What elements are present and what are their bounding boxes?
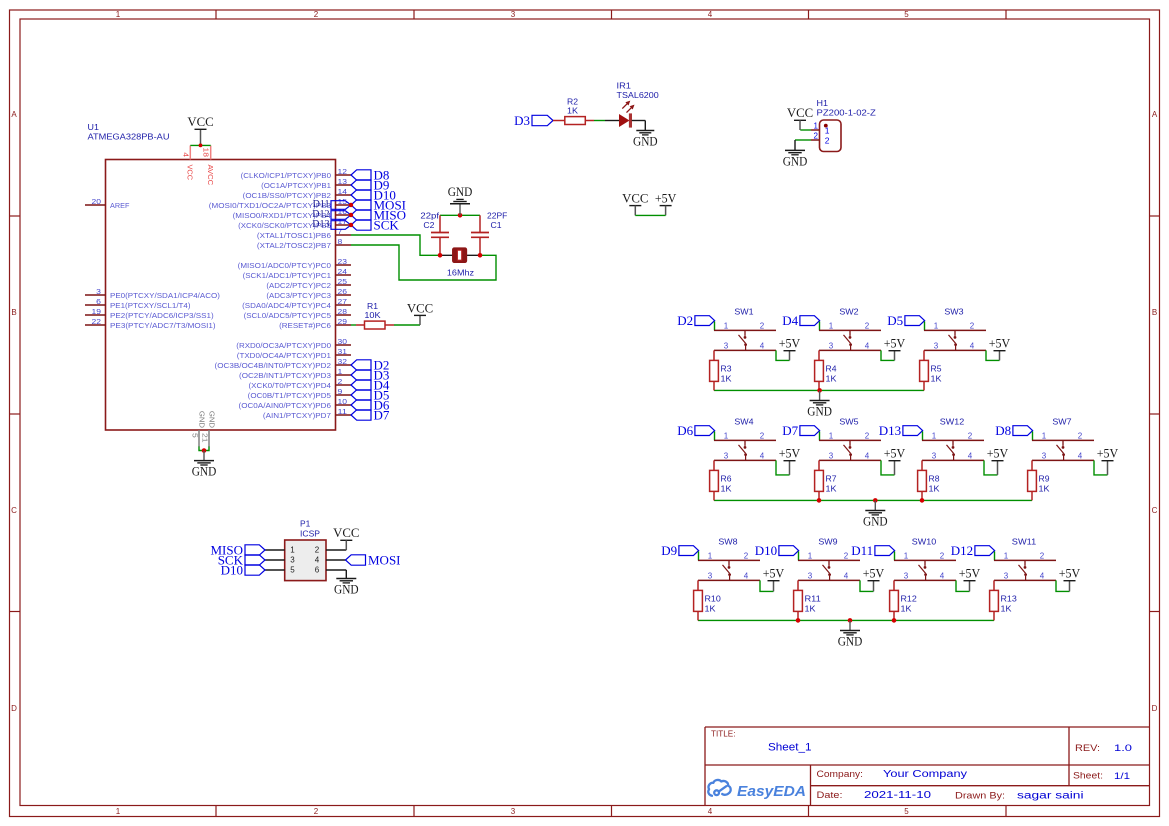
svg-text:R7: R7 [826,473,837,483]
svg-text:1: 1 [290,546,295,555]
svg-text:2: 2 [940,551,945,560]
svg-text:GND: GND [633,134,658,149]
svg-text:GND: GND [807,404,832,419]
svg-text:U1: U1 [88,122,100,132]
svg-text:4: 4 [844,571,849,580]
svg-text:28: 28 [338,307,348,316]
svg-text:4: 4 [940,571,945,580]
svg-text:26: 26 [338,287,348,296]
svg-text:C1: C1 [491,220,503,230]
svg-text:SW3: SW3 [944,306,964,316]
svg-text:D4: D4 [782,313,798,328]
svg-text:ICSP: ICSP [300,529,320,539]
svg-text:3: 3 [932,451,937,460]
svg-text:D8: D8 [995,423,1011,438]
svg-text:10: 10 [338,397,348,406]
svg-text:25: 25 [338,277,348,286]
svg-text:2: 2 [968,431,973,440]
svg-text:(OC1A/PTCXY)PB1: (OC1A/PTCXY)PB1 [261,181,331,190]
svg-text:SW10: SW10 [912,536,937,546]
svg-text:EasyEDA: EasyEDA [737,784,806,800]
svg-text:+5V: +5V [655,191,677,206]
svg-text:SW1: SW1 [734,306,754,316]
svg-text:2: 2 [865,431,870,440]
svg-text:1/1: 1/1 [1114,771,1130,782]
svg-text:1K: 1K [567,106,578,116]
svg-text:(TXD0/OC4A/PTCXY)PD1: (TXD0/OC4A/PTCXY)PD1 [237,351,331,360]
svg-text:GND: GND [208,411,217,429]
svg-text:2: 2 [970,321,975,330]
svg-text:(OC0A/AIN0/PTCXY)PD6: (OC0A/AIN0/PTCXY)PD6 [239,401,332,410]
svg-text:2: 2 [1040,551,1045,560]
svg-text:D3: D3 [514,113,530,128]
svg-text:1K: 1K [931,373,942,383]
svg-text:6: 6 [96,297,101,306]
svg-text:29: 29 [338,317,348,326]
svg-text:2: 2 [825,135,830,145]
svg-text:2: 2 [760,321,765,330]
svg-text:C: C [1152,506,1158,515]
svg-text:GND: GND [192,464,217,479]
svg-text:B: B [11,308,16,317]
svg-text:16Mhz: 16Mhz [447,268,474,278]
svg-text:VCC: VCC [622,191,648,206]
svg-text:C2: C2 [423,220,435,230]
svg-text:PE3(PTCY/ADC7/T3/MOSI1): PE3(PTCY/ADC7/T3/MOSI1) [110,321,216,330]
svg-text:20: 20 [92,197,102,206]
svg-text:4: 4 [968,451,973,460]
svg-text:VCC: VCC [333,525,359,540]
svg-text:D5: D5 [887,313,903,328]
svg-text:1: 1 [1042,431,1047,440]
svg-text:1: 1 [829,321,834,330]
svg-text:4: 4 [1078,451,1083,460]
svg-text:ATMEGA328PB-AU: ATMEGA328PB-AU [88,132,170,142]
svg-text:3: 3 [829,341,834,350]
svg-text:D13: D13 [312,219,329,230]
svg-text:3: 3 [808,571,813,580]
svg-text:2: 2 [314,10,319,19]
svg-text:D9: D9 [661,543,677,558]
svg-text:1K: 1K [826,373,837,383]
svg-text:C: C [11,506,17,515]
svg-text:+5V: +5V [779,446,801,461]
svg-text:4: 4 [760,341,765,350]
svg-text:3: 3 [96,287,101,296]
svg-text:SW12: SW12 [940,416,965,426]
svg-text:3: 3 [934,341,939,350]
svg-text:5: 5 [904,807,909,816]
svg-text:(RXD0/OC3A/PTCXY)PD0: (RXD0/OC3A/PTCXY)PD0 [236,341,331,350]
svg-text:2: 2 [865,321,870,330]
svg-text:GND: GND [783,153,808,168]
svg-text:(OC2B/INT1/PTCXY)PD3: (OC2B/INT1/PTCXY)PD3 [239,371,331,380]
svg-text:SW5: SW5 [839,416,859,426]
svg-text:R3: R3 [721,363,732,373]
svg-text:30: 30 [338,337,348,346]
svg-text:AVCC: AVCC [206,165,215,186]
svg-text:5: 5 [904,10,909,19]
svg-text:4: 4 [865,451,870,460]
svg-text:2: 2 [760,431,765,440]
svg-text:+5V: +5V [884,446,906,461]
svg-text:3: 3 [708,571,713,580]
svg-text:IR1: IR1 [617,81,632,91]
svg-text:22pf: 22pf [420,210,439,220]
svg-text:19: 19 [92,307,102,316]
svg-text:1.0: 1.0 [1114,743,1132,754]
svg-text:11: 11 [338,407,348,416]
svg-text:4: 4 [865,341,870,350]
svg-text:4: 4 [970,341,975,350]
svg-text:1: 1 [116,807,121,816]
svg-text:Sheet:: Sheet: [1073,770,1103,780]
svg-text:1: 1 [814,121,819,130]
svg-text:1: 1 [829,431,834,440]
svg-text:(MISO1/ADC0/PTCY)PC0: (MISO1/ADC0/PTCY)PC0 [238,261,331,270]
svg-text:R4: R4 [826,363,837,373]
svg-text:4: 4 [315,556,320,565]
svg-text:14: 14 [338,187,348,196]
svg-text:SW8: SW8 [718,536,738,546]
svg-text:(SDA0/ADC4/PTCY)PC4: (SDA0/ADC4/PTCY)PC4 [242,301,331,310]
svg-text:D: D [1152,704,1158,713]
svg-text:1K: 1K [826,483,837,493]
svg-text:D7: D7 [782,423,798,438]
svg-text:(XTAL2/TOSC2)PB7: (XTAL2/TOSC2)PB7 [257,241,331,250]
svg-text:SCK: SCK [374,217,400,232]
svg-text:1K: 1K [929,483,940,493]
svg-text:Date:: Date: [817,790,843,800]
svg-text:1K: 1K [721,483,732,493]
svg-text:D10: D10 [221,562,243,577]
svg-text:24: 24 [338,267,348,276]
svg-text:P1: P1 [300,519,311,529]
svg-text:R12: R12 [901,593,918,603]
svg-text:4: 4 [744,571,749,580]
svg-text:18: 18 [202,148,211,158]
svg-text:D11: D11 [851,543,873,558]
svg-text:1K: 1K [705,603,716,613]
svg-text:21: 21 [201,433,210,443]
svg-text:2: 2 [338,377,343,386]
svg-text:D6: D6 [677,423,693,438]
svg-text:1: 1 [724,431,729,440]
svg-text:2: 2 [744,551,749,560]
svg-text:R11: R11 [805,593,822,603]
svg-text:A: A [1152,110,1158,119]
svg-text:D2: D2 [677,313,693,328]
svg-text:6: 6 [315,566,320,575]
svg-text:1: 1 [724,321,729,330]
svg-text:4: 4 [181,152,190,157]
svg-text:3: 3 [1042,451,1047,460]
svg-text:Drawn By:: Drawn By: [955,791,1005,801]
svg-text:3: 3 [829,451,834,460]
svg-text:D12: D12 [951,543,973,558]
svg-text:GND: GND [448,184,473,199]
svg-text:VCC: VCC [787,105,813,120]
svg-text:+5V: +5V [1059,566,1081,581]
svg-text:31: 31 [338,347,348,356]
svg-text:SW9: SW9 [818,536,838,546]
svg-text:GND: GND [334,582,359,597]
svg-text:1K: 1K [1039,483,1050,493]
svg-text:H1: H1 [817,98,829,108]
svg-text:D10: D10 [755,543,777,558]
svg-text:Your Company: Your Company [883,769,967,780]
svg-text:B: B [1152,308,1157,317]
svg-text:3: 3 [724,341,729,350]
svg-text:TSAL6200: TSAL6200 [617,90,660,100]
svg-text:R13: R13 [1001,593,1018,603]
svg-text:8: 8 [338,237,343,246]
svg-text:(SCK1/ADC1/PTCY)PC1: (SCK1/ADC1/PTCY)PC1 [243,271,331,280]
svg-text:23: 23 [338,257,348,266]
svg-text:PE0(PTCXY/SDA1/ICP4/ACO): PE0(PTCXY/SDA1/ICP4/ACO) [110,291,220,300]
svg-text:D13: D13 [879,423,901,438]
svg-text:D: D [11,704,17,713]
svg-text:1: 1 [338,367,343,376]
svg-text:(SCL0/ADC5/PTCY)PC5: (SCL0/ADC5/PTCY)PC5 [244,311,331,320]
svg-text:+5V: +5V [1097,446,1119,461]
svg-text:1K: 1K [805,603,816,613]
svg-text:5: 5 [191,433,200,438]
svg-text:4: 4 [1040,571,1045,580]
svg-text:R8: R8 [929,473,940,483]
svg-text:+5V: +5V [884,336,906,351]
svg-text:+5V: +5V [987,446,1009,461]
svg-text:(XCK0/T0/PTCXY)PD4: (XCK0/T0/PTCXY)PD4 [249,381,332,390]
svg-text:GND: GND [838,634,863,649]
svg-text:(OC3B/OC4B/INT0/PTCXY)PD2: (OC3B/OC4B/INT0/PTCXY)PD2 [215,361,332,370]
svg-text:R6: R6 [721,473,732,483]
svg-text:2: 2 [1078,431,1083,440]
svg-text:(RESET#)PC6: (RESET#)PC6 [279,321,331,330]
svg-text:GND: GND [198,411,207,429]
svg-text:5: 5 [290,566,295,575]
svg-text:PZ200-1-02-Z: PZ200-1-02-Z [817,108,876,118]
svg-text:(ADC3/PTCY)PC3: (ADC3/PTCY)PC3 [266,291,331,300]
svg-text:2: 2 [314,807,319,816]
svg-text:AREF: AREF [110,201,130,210]
svg-text:(CLKO/ICP1/PTCXY)PB0: (CLKO/ICP1/PTCXY)PB0 [241,171,331,180]
svg-text:3: 3 [904,571,909,580]
svg-text:(OC0B/T1/PTCXY)PD5: (OC0B/T1/PTCXY)PD5 [248,391,331,400]
svg-text:1: 1 [825,125,830,135]
svg-text:REV:: REV: [1075,743,1100,753]
svg-text:12: 12 [338,167,348,176]
svg-text:+5V: +5V [959,566,981,581]
svg-text:3: 3 [1004,571,1009,580]
svg-text:A: A [11,110,17,119]
svg-text:R10: R10 [705,593,722,603]
svg-text:1: 1 [808,551,813,560]
svg-text:VCC: VCC [407,300,433,315]
svg-text:4: 4 [708,10,713,19]
svg-text:1K: 1K [1001,603,1012,613]
svg-text:R5: R5 [931,363,942,373]
svg-text:PE2(PTCY/ADC6/ICP3/SS1): PE2(PTCY/ADC6/ICP3/SS1) [110,311,214,320]
svg-text:+5V: +5V [863,566,885,581]
svg-text:32: 32 [338,357,348,366]
svg-text:GND: GND [863,514,888,529]
svg-text:3: 3 [511,807,516,816]
svg-text:SW4: SW4 [734,416,754,426]
svg-text:1: 1 [116,10,121,19]
svg-text:3: 3 [511,10,516,19]
svg-text:1: 1 [932,431,937,440]
svg-text:R9: R9 [1039,473,1050,483]
svg-text:MOSI: MOSI [368,552,401,567]
svg-text:+5V: +5V [989,336,1011,351]
svg-text:VCC: VCC [186,165,195,181]
svg-text:3: 3 [724,451,729,460]
svg-text:Sheet_1: Sheet_1 [768,742,812,754]
svg-text:2: 2 [844,551,849,560]
svg-text:(AIN1/PTCXY)PD7: (AIN1/PTCXY)PD7 [263,411,331,420]
svg-text:SW7: SW7 [1052,416,1072,426]
svg-text:1: 1 [1004,551,1009,560]
svg-text:D7: D7 [374,407,390,422]
svg-text:+5V: +5V [779,336,801,351]
svg-text:3: 3 [290,556,295,565]
svg-text:Company:: Company: [817,769,864,779]
svg-text:2021-11-10: 2021-11-10 [864,790,932,801]
svg-text:(ADC2/PTCY)PC2: (ADC2/PTCY)PC2 [266,281,331,290]
svg-text:SW11: SW11 [1012,536,1037,546]
svg-text:22: 22 [92,317,102,326]
svg-text:SW2: SW2 [839,306,859,316]
svg-text:4: 4 [708,807,713,816]
svg-text:1: 1 [904,551,909,560]
svg-text:22PF: 22PF [487,210,507,220]
svg-text:TITLE:: TITLE: [711,729,736,739]
svg-text:1K: 1K [901,603,912,613]
svg-text:PE1(PTCXY/SCL1/T4): PE1(PTCXY/SCL1/T4) [110,301,191,310]
svg-text:9: 9 [338,387,343,396]
svg-text:7: 7 [338,227,343,236]
svg-text:1: 1 [934,321,939,330]
svg-text:13: 13 [338,177,348,186]
svg-text:1: 1 [708,551,713,560]
svg-text:VCC: VCC [187,114,213,129]
svg-text:4: 4 [760,451,765,460]
svg-text:2: 2 [814,132,819,141]
svg-text:2: 2 [315,546,320,555]
svg-text:sagar saini: sagar saini [1017,791,1084,802]
svg-text:1K: 1K [721,373,732,383]
svg-text:+5V: +5V [763,566,785,581]
svg-text:27: 27 [338,297,348,306]
svg-text:10K: 10K [364,310,381,320]
svg-text:(XTAL1/TOSC1)PB6: (XTAL1/TOSC1)PB6 [257,231,331,240]
